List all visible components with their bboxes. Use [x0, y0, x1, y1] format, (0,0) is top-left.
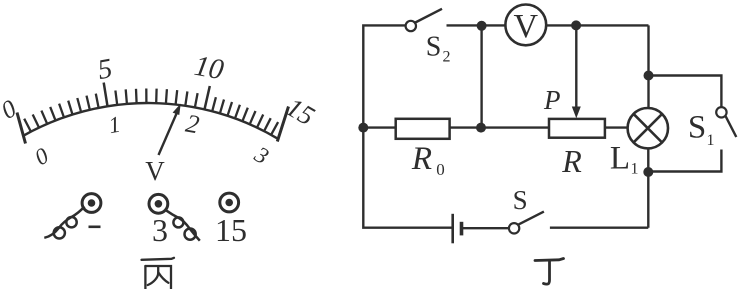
svg-text:S: S [513, 185, 528, 215]
battery cell [453, 214, 462, 244]
switch S [509, 212, 544, 234]
label S1 [688, 110, 715, 150]
meter scale arc [23, 103, 278, 139]
svg-text:10: 10 [192, 50, 227, 87]
svg-text:S: S [688, 110, 706, 146]
svg-text:15: 15 [215, 212, 247, 248]
wire bottom right [550, 226, 648, 228]
svg-text:0: 0 [30, 143, 53, 171]
svg-text:S: S [426, 32, 442, 63]
svg-text:V: V [514, 8, 539, 45]
lamp L1 [628, 108, 668, 148]
node below lamp [643, 167, 653, 177]
wire left rail to R0 [363, 126, 395, 128]
node left rail / middle row [358, 123, 368, 133]
wire S2 to voltmeter [447, 24, 506, 26]
wire squiggle at terminal 3 [166, 210, 200, 241]
scale end ticks 0 and 15 [17, 107, 289, 144]
wire battery to switch S [463, 227, 509, 229]
scale major ticks [104, 83, 210, 110]
node on top wire (left) [477, 21, 487, 31]
wire voltmeter to top-right corner [546, 24, 648, 26]
slider arrow P into R [572, 25, 581, 118]
terminal 15 (right binding post) [220, 193, 239, 212]
wire R0 to R [450, 126, 549, 128]
voltmeter V [505, 5, 546, 46]
svg-text:R: R [561, 143, 582, 179]
wire squiggle at minus terminal [44, 207, 84, 239]
svg-text:2: 2 [443, 49, 451, 66]
meter needle [159, 104, 181, 156]
svg-text:3: 3 [152, 212, 168, 248]
svg-text:P: P [543, 85, 561, 115]
svg-text:V: V [145, 156, 165, 186]
node middle row [476, 123, 486, 133]
node on top wire (right) [571, 20, 581, 30]
terminal minus (left binding post) [82, 194, 101, 213]
node S1 branch top [644, 71, 654, 81]
wire R to lamp [605, 126, 628, 128]
svg-text:1: 1 [107, 112, 123, 139]
svg-text:3: 3 [250, 141, 273, 169]
label L1 [610, 141, 639, 178]
scale minor ticks [24, 89, 278, 135]
rheostat R [549, 119, 605, 138]
label minus [89, 226, 101, 229]
wire node to middle row [480, 26, 482, 128]
svg-text:L: L [610, 141, 630, 177]
wire to S1 [649, 76, 722, 108]
wire S1 to lamp bottom node [648, 150, 721, 172]
label R0 [411, 141, 445, 179]
terminal 3 (middle binding post) [149, 194, 168, 213]
switch S2 [406, 9, 442, 31]
svg-text:R: R [411, 141, 432, 177]
right rail top [647, 25, 649, 108]
circuit: top-left corner / left rail [363, 25, 452, 227]
svg-text:1: 1 [707, 132, 715, 149]
caption 丙 (drawn strokes) [142, 258, 175, 289]
svg-text:1: 1 [631, 161, 639, 178]
resistor R0 [396, 119, 450, 139]
label S2 [426, 32, 451, 66]
svg-text:15: 15 [281, 92, 319, 131]
svg-text:5: 5 [96, 53, 115, 86]
switch S1 [716, 107, 736, 137]
svg-text:2: 2 [184, 109, 202, 140]
caption 丁 (drawn strokes) [535, 259, 564, 285]
right rail lamp to node [647, 148, 649, 227]
svg-text:0: 0 [436, 160, 445, 179]
